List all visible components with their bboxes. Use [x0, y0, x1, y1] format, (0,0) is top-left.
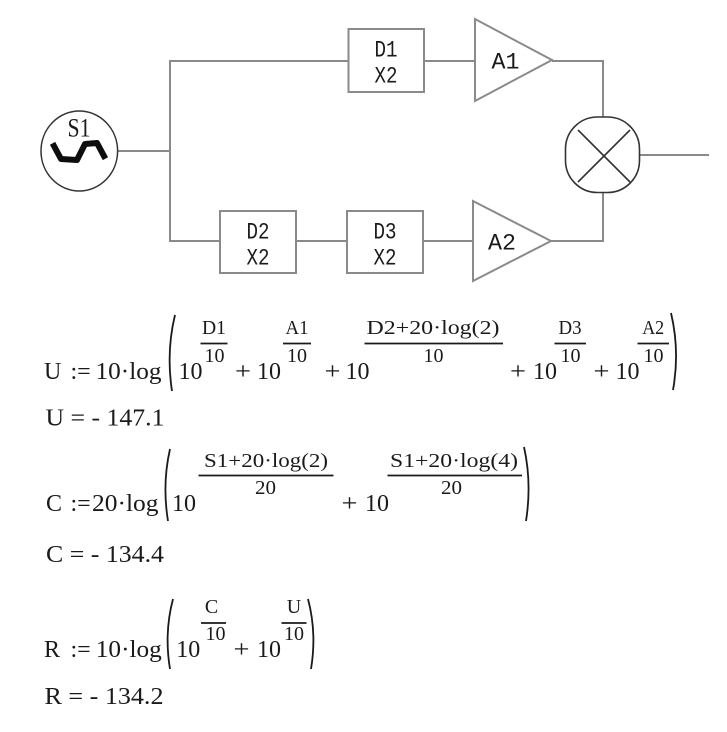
amplifier A2 — [473, 201, 551, 281]
svg-text:20: 20 — [255, 477, 276, 499]
svg-text:10: 10 — [206, 623, 226, 645]
svg-text::=: := — [71, 491, 91, 517]
svg-text:10: 10 — [257, 637, 281, 663]
svg-text:S1: S1 — [68, 114, 91, 143]
svg-text:D1: D1 — [202, 317, 226, 339]
svg-text:D3: D3 — [374, 220, 397, 246]
doubler D3 — [347, 211, 423, 273]
svg-text:10·log: 10·log — [96, 359, 162, 385]
svg-text:+: + — [510, 359, 526, 385]
svg-text:+: + — [594, 359, 610, 385]
svg-text:+: + — [234, 637, 250, 663]
svg-text:20·log: 20·log — [92, 491, 159, 517]
wire branch vertical — [169, 60, 171, 242]
svg-text:10: 10 — [257, 359, 281, 385]
formula C definition — [46, 447, 529, 521]
svg-text:+: + — [342, 491, 358, 517]
svg-text:S1+20·log(2): S1+20·log(2) — [204, 450, 328, 472]
doubler D1 — [349, 29, 425, 92]
svg-text:A1: A1 — [492, 50, 520, 76]
svg-text:C: C — [205, 596, 218, 618]
wire D1 to A1 — [424, 60, 476, 62]
svg-text:10: 10 — [284, 623, 304, 645]
wire mixer bottom down — [602, 192, 604, 242]
wire A1 to corner — [552, 60, 604, 62]
svg-text:C: C — [46, 491, 62, 517]
svg-text:+: + — [325, 359, 341, 385]
wire branch to D2 — [169, 240, 220, 242]
svg-text:R: R — [44, 637, 60, 663]
svg-text:10: 10 — [533, 359, 557, 385]
source S1 — [41, 111, 118, 191]
wire A2 to mixer corner — [551, 240, 604, 242]
svg-text:S1+20·log(4): S1+20·log(4) — [390, 450, 518, 472]
svg-text:10: 10 — [561, 345, 581, 367]
wire top branch to D1 — [169, 60, 349, 62]
wire source S1 to branch node — [117, 150, 171, 152]
svg-text:10: 10 — [287, 345, 307, 367]
svg-text:A1: A1 — [286, 317, 309, 339]
svg-text:U: U — [287, 596, 302, 618]
svg-text:10: 10 — [346, 359, 370, 385]
svg-text:U = - 147.1: U = - 147.1 — [46, 406, 165, 432]
wire corner down to mixer top — [602, 60, 604, 118]
wire D3 to A2 — [423, 240, 473, 242]
svg-text:D1: D1 — [375, 38, 398, 64]
svg-text::=: := — [71, 359, 91, 385]
svg-text:10: 10 — [172, 491, 196, 517]
svg-text:C = - 134.4: C = - 134.4 — [46, 542, 164, 568]
svg-text:10: 10 — [205, 345, 225, 367]
svg-text:10: 10 — [616, 359, 640, 385]
svg-text:U: U — [44, 359, 61, 385]
svg-text:10: 10 — [644, 345, 664, 367]
formula R definition — [44, 596, 313, 669]
svg-text:10: 10 — [365, 491, 389, 517]
doubler D2 — [220, 211, 296, 273]
mixer — [566, 117, 640, 193]
svg-text:R = - 134.2: R = - 134.2 — [45, 684, 164, 710]
svg-text:10·log: 10·log — [96, 637, 162, 663]
svg-text:A2: A2 — [642, 317, 664, 339]
svg-text:A2: A2 — [488, 231, 516, 257]
svg-text::=: := — [71, 637, 91, 663]
svg-text:D2+20·log(2): D2+20·log(2) — [367, 317, 500, 339]
amplifier A1 — [475, 19, 552, 101]
svg-text:X2: X2 — [375, 64, 398, 90]
wire D2 to D3 — [296, 240, 347, 242]
svg-text:X2: X2 — [374, 246, 397, 272]
svg-text:D2: D2 — [247, 220, 270, 246]
svg-text:10: 10 — [424, 345, 444, 367]
svg-text:D3: D3 — [559, 317, 582, 339]
svg-text:20: 20 — [441, 477, 462, 499]
svg-text:10: 10 — [176, 637, 200, 663]
wire mixer output — [640, 154, 709, 156]
formula U definition — [44, 313, 676, 391]
svg-text:X2: X2 — [247, 246, 270, 272]
svg-text:+: + — [235, 359, 251, 385]
svg-text:10: 10 — [179, 359, 203, 385]
